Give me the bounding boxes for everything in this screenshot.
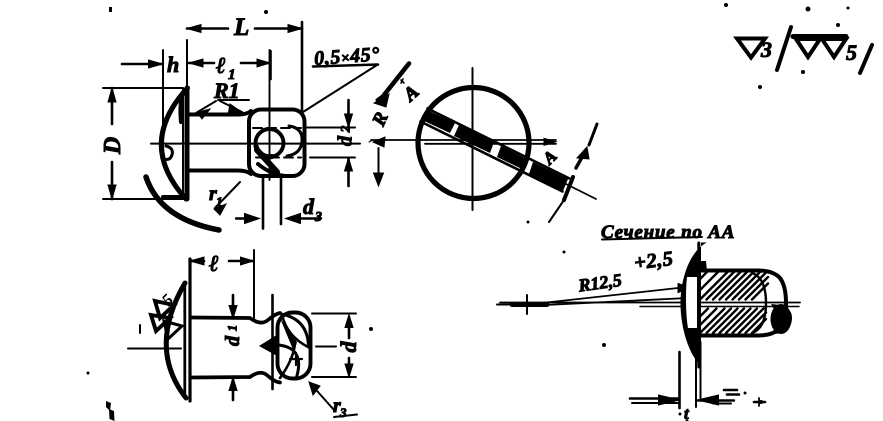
dark hole end blob	[771, 304, 793, 334]
centerline vertical through ball (bottom view)	[271, 295, 274, 389]
main circle	[418, 88, 529, 199]
head dome arc (bottom view)	[166, 283, 186, 398]
small cross in ball	[290, 353, 302, 365]
svg-text:ℓ: ℓ	[209, 251, 219, 276]
centerline vertical through hole (top view)	[269, 50, 271, 180]
centerline horizontal (bottom view)	[128, 325, 336, 349]
dimension h	[122, 50, 179, 128]
dark V accent in ball	[280, 318, 297, 352]
label R1 with leaders	[196, 78, 249, 119]
dimension l1	[189, 51, 271, 83]
dimension D	[100, 88, 186, 199]
ball end (bottom view)	[278, 313, 311, 379]
shank neck top outline	[189, 111, 251, 115]
section title	[601, 222, 735, 243]
section slot dark fills	[422, 110, 568, 191]
ball inner lower lobe	[279, 344, 299, 379]
section slot band boundary lines	[421, 109, 570, 192]
svg-text:d: d	[335, 135, 357, 146]
svg-text:A: A	[399, 82, 423, 107]
svg-text:R: R	[368, 109, 393, 130]
svg-text:d: d	[336, 341, 361, 353]
small equals marks right of t	[679, 390, 766, 421]
svg-text:h: h	[167, 52, 179, 77]
svg-text:3: 3	[339, 405, 347, 420]
section line thin extensions	[566, 184, 596, 199]
svg-text:R12,5: R12,5	[576, 270, 623, 296]
label 0,5x45 chamfer	[303, 43, 381, 112]
svg-text:d: d	[303, 194, 315, 219]
svg-text:L: L	[233, 14, 249, 41]
dimension d3	[236, 176, 322, 229]
section arrow upper-left A	[374, 64, 423, 108]
circle vertical centerline	[472, 68, 474, 210]
dimension L	[187, 14, 302, 110]
inner boundary curve (section)	[752, 273, 766, 333]
hole hidden dashed lines	[253, 128, 301, 158]
roughness mark triangle 3	[737, 27, 791, 70]
dimension d	[312, 314, 361, 378]
bolt head flat face	[183, 88, 187, 199]
ball inner upper lens	[281, 314, 309, 347]
ball end rounded body	[249, 110, 305, 177]
label r3 with leader	[309, 382, 357, 420]
flange right edge line	[697, 243, 700, 367]
dark wedge shading in ball	[256, 146, 285, 176]
svg-text:2: 2	[338, 125, 353, 133]
hole circle	[256, 129, 284, 157]
svg-text:d: d	[222, 335, 244, 346]
dark wedge at shank waist	[259, 334, 279, 358]
small tick and arrow below centerline left end	[369, 137, 385, 186]
shank neck bottom outline	[189, 171, 251, 175]
svg-text:t: t	[684, 404, 690, 421]
neck top outline (bottom view)	[191, 313, 280, 323]
neck bottom outline (bottom view)	[191, 373, 280, 383]
hatching upper	[700, 271, 768, 300]
centerline horizontal (top view)	[151, 143, 360, 145]
dimension t	[630, 342, 734, 421]
rotated R label (left of circle)	[368, 109, 393, 130]
hatching lower	[700, 309, 766, 334]
dimension d2	[306, 100, 357, 186]
svg-text:D: D	[100, 137, 126, 155]
svg-text:ℓ: ℓ	[216, 53, 226, 78]
hole far-side silhouette curve	[287, 126, 302, 156]
svg-text:1: 1	[225, 325, 240, 332]
head flat face (bottom view)	[185, 259, 190, 401]
roughness mark double triangle 5	[793, 37, 872, 74]
svg-text:3: 3	[314, 210, 322, 225]
radius label R12,5	[576, 270, 623, 296]
section centerline	[500, 303, 800, 307]
head underside arc r1	[146, 177, 219, 230]
flange filled crescent body	[680, 243, 707, 368]
circle horizontal centerline	[371, 138, 556, 145]
shank outer outline (section)	[700, 271, 786, 336]
radius leader lines with center cross	[497, 284, 691, 315]
svg-text:5: 5	[846, 40, 857, 65]
svg-text:3: 3	[760, 37, 772, 62]
bolt head dome arc	[161, 88, 187, 199]
dimension l	[190, 250, 254, 319]
flange to cap joint	[700, 261, 707, 271]
surface finish triangles on dome	[151, 290, 182, 339]
svg-text:+2,5: +2,5	[633, 248, 675, 275]
section arrow lower-right A	[538, 124, 597, 222]
label r1 with leader	[209, 182, 240, 215]
tolerance label +2,5	[633, 248, 675, 275]
dimension d1	[222, 295, 244, 400]
